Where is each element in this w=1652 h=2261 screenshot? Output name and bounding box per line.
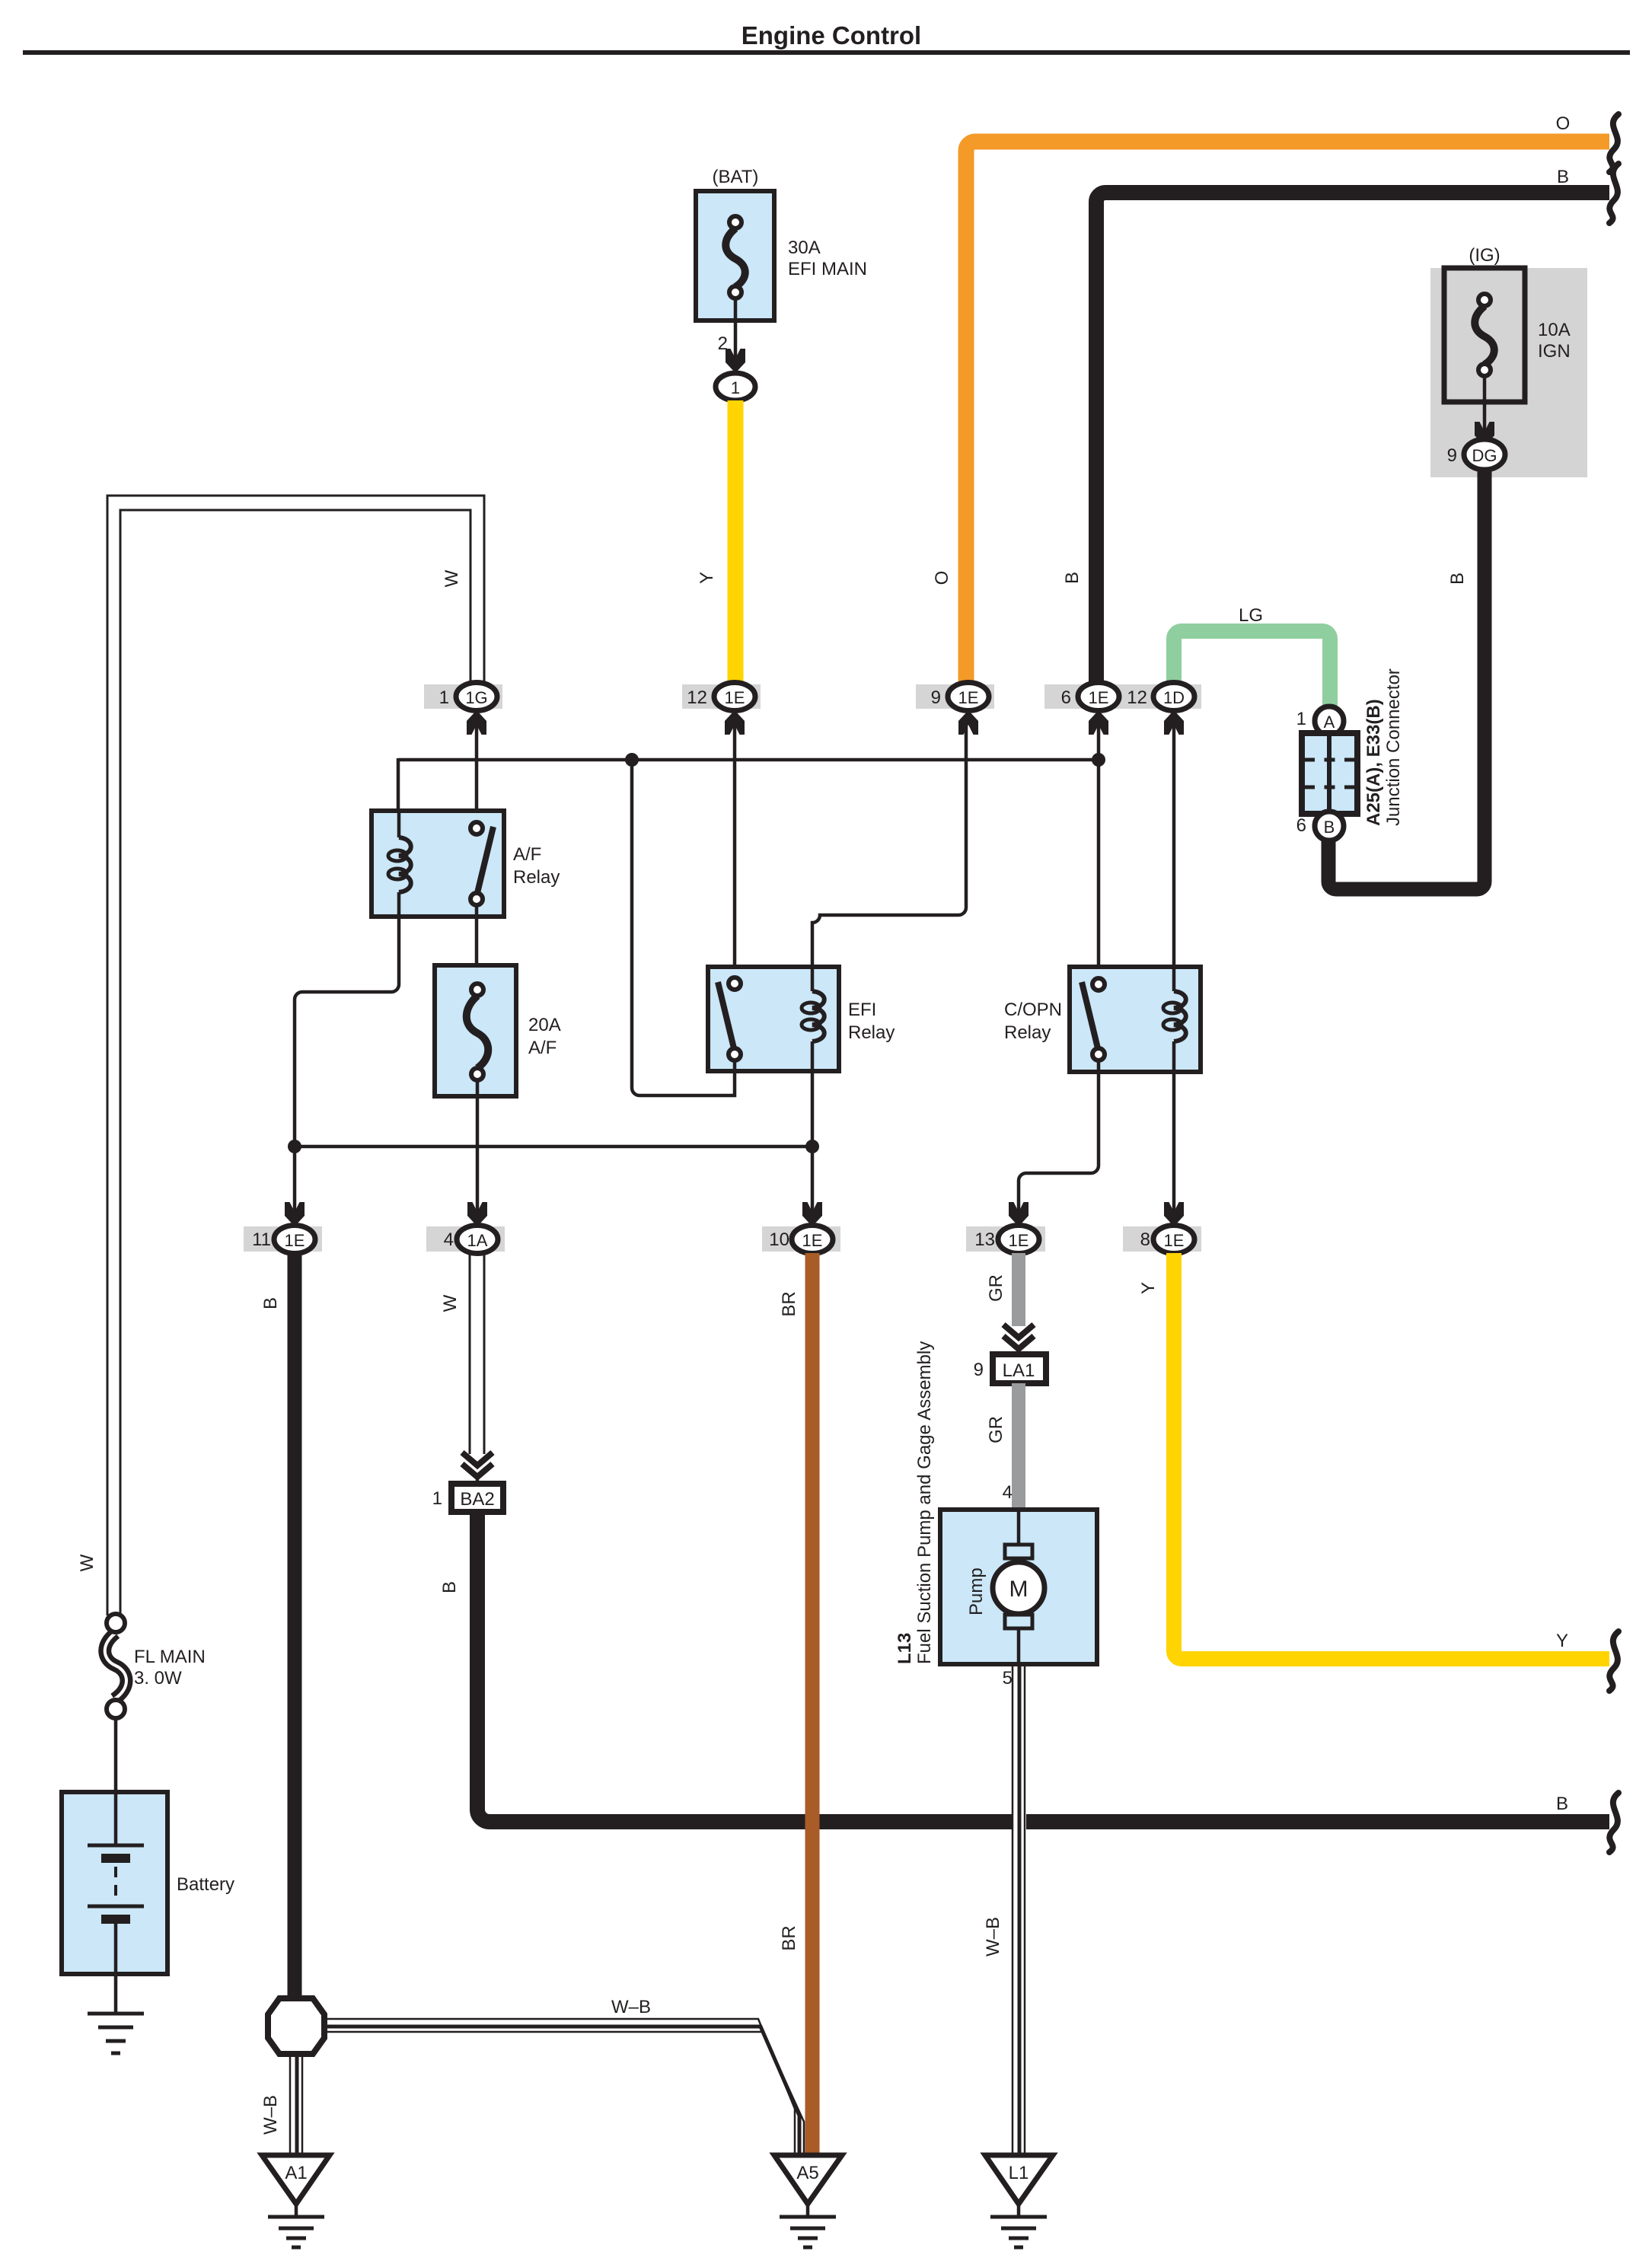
svg-text:L13: L13 bbox=[895, 1633, 915, 1664]
wire (12 1E to EFI relay switch) bbox=[733, 725, 737, 981]
wire BR (10 1E to ground A5) bbox=[805, 1253, 820, 2154]
svg-text:Fuel Suction Pump and Gage Ass: Fuel Suction Pump and Gage Assembly bbox=[914, 1341, 935, 1664]
relay C/OPN bbox=[1004, 967, 1201, 1072]
wire GR (LA1 to pump pin 4) bbox=[1012, 1383, 1025, 1510]
svg-text:1: 1 bbox=[439, 687, 449, 708]
wire (coil common, y=1506) bbox=[295, 1145, 812, 1149]
connector 1G pin 1 bbox=[424, 683, 502, 735]
wire W-B (octagon to ground A1) bbox=[260, 2054, 302, 2155]
svg-text:9: 9 bbox=[974, 1360, 984, 1380]
svg-text:6: 6 bbox=[1296, 815, 1306, 836]
fusible link FL MAIN 3.0W bbox=[105, 1614, 206, 1718]
connector 1E pin 9 bbox=[916, 683, 994, 735]
svg-text:O: O bbox=[1556, 113, 1571, 134]
relay A/F bbox=[372, 811, 560, 917]
svg-text:Relay: Relay bbox=[1004, 1022, 1051, 1043]
svg-text:B: B bbox=[1557, 167, 1569, 187]
wire (EFI switch bottom leg) bbox=[733, 1060, 737, 1073]
junction connector A25(A), E33(B) bbox=[1296, 668, 1404, 840]
svg-text:BA2: BA2 bbox=[460, 1489, 494, 1510]
svg-text:11: 11 bbox=[252, 1229, 271, 1250]
svg-text:1E: 1E bbox=[1009, 1231, 1029, 1250]
wire (FL MAIN to battery) bbox=[114, 1718, 118, 1795]
svg-text:GR: GR bbox=[986, 1416, 1006, 1443]
svg-text:A25(A), E33(B): A25(A), E33(B) bbox=[1363, 699, 1384, 826]
wire Y (8 1E to right edge) bbox=[1174, 1253, 1609, 1659]
ground (battery) bbox=[88, 2014, 144, 2053]
relay EFI bbox=[708, 967, 895, 1071]
svg-text:5: 5 bbox=[1003, 1668, 1013, 1689]
node (bus meets 6 1E wire) bbox=[1092, 753, 1105, 767]
node (11 1E branch) bbox=[288, 1140, 301, 1153]
connector 1E pin 8 bbox=[1123, 1202, 1201, 1254]
wire (A/F switch to 20A fuse) bbox=[475, 905, 479, 967]
svg-text:1: 1 bbox=[1296, 709, 1306, 729]
svg-text:W–B: W–B bbox=[260, 2095, 281, 2135]
svg-text:3. 0W: 3. 0W bbox=[134, 1668, 182, 1689]
wire (EFI coil to 10 1E) bbox=[811, 1071, 815, 1213]
svg-text:A/F: A/F bbox=[528, 1038, 557, 1058]
wire Y (fuse 30A to 12 1E) bbox=[728, 400, 744, 683]
bus wire (relay feed, y=998) bbox=[398, 758, 1099, 762]
wire B (11 1E to splice octagon) bbox=[288, 1253, 302, 1999]
svg-text:DG: DG bbox=[1472, 446, 1497, 465]
svg-text:O: O bbox=[932, 571, 952, 585]
svg-text:Relay: Relay bbox=[848, 1022, 895, 1043]
svg-text:L1: L1 bbox=[1009, 2163, 1029, 2183]
svg-text:20A: 20A bbox=[528, 1015, 561, 1035]
wire B (black, 6 1E to right edge) bbox=[1096, 193, 1609, 683]
svg-text:LA1: LA1 bbox=[1003, 1360, 1035, 1381]
svg-text:Pump: Pump bbox=[966, 1567, 987, 1615]
connector 1E pin 11 bbox=[244, 1202, 322, 1254]
svg-text:1E: 1E bbox=[725, 688, 745, 707]
svg-text:1E: 1E bbox=[1089, 688, 1109, 707]
svg-text:EFI: EFI bbox=[848, 1000, 876, 1020]
svg-text:B: B bbox=[439, 1581, 460, 1593]
svg-text:W: W bbox=[77, 1554, 97, 1571]
svg-text:FL MAIN: FL MAIN bbox=[134, 1647, 206, 1667]
svg-text:4: 4 bbox=[444, 1229, 454, 1250]
svg-text:W: W bbox=[442, 569, 462, 587]
battery bbox=[62, 1792, 234, 2012]
break symbol (Y wire bottom) bbox=[1609, 1631, 1619, 1691]
splice octagon bbox=[268, 1998, 324, 2054]
svg-text:1E: 1E bbox=[802, 1231, 823, 1250]
wire (20A fuse to 4 1A) bbox=[476, 1080, 480, 1213]
svg-text:C/OPN: C/OPN bbox=[1004, 1000, 1062, 1020]
wire (12 1D to C/OPN relay coil) bbox=[1172, 725, 1176, 978]
svg-text:1A: 1A bbox=[467, 1231, 488, 1250]
wire (6 1E to C/OPN relay switch) bbox=[1097, 725, 1101, 981]
wire (C/OPN switch to 13 1E) bbox=[1019, 1060, 1099, 1213]
wire B (BA2 to right edge) bbox=[477, 1512, 1609, 1822]
svg-text:W–B: W–B bbox=[983, 1917, 1003, 1956]
fuse 10A IGN (IG) bbox=[1430, 245, 1587, 477]
wire (C/OPN coil to 8 1E) bbox=[1172, 1072, 1176, 1213]
connector 1A pin 4 bbox=[426, 1202, 505, 1254]
wire (9 1E to EFI relay coil) bbox=[812, 725, 966, 968]
svg-text:10: 10 bbox=[769, 1229, 789, 1250]
break symbol (B wire top) bbox=[1609, 164, 1619, 223]
wire O (orange, 9 1E to right edge) bbox=[966, 142, 1609, 683]
svg-text:Y: Y bbox=[697, 572, 717, 584]
wire W-B (octagon to ground A5) bbox=[324, 1997, 804, 2155]
svg-text:12: 12 bbox=[1127, 687, 1147, 708]
wire B (DG to junction connector B) bbox=[1328, 470, 1485, 889]
svg-text:W–B: W–B bbox=[611, 1997, 651, 2017]
node (bus to EFI switch branch) bbox=[625, 753, 639, 767]
svg-text:BR: BR bbox=[779, 1925, 799, 1950]
title rule bbox=[23, 50, 1630, 55]
svg-text:Battery: Battery bbox=[177, 1874, 234, 1895]
fuel suction pump and gage assembly L13 bbox=[895, 1341, 1097, 1689]
svg-text:B: B bbox=[1062, 572, 1083, 584]
svg-text:B: B bbox=[1447, 572, 1468, 585]
break symbol (B wire bottom) bbox=[1609, 1793, 1619, 1852]
connector LA1 pin 9 (double chevron) bbox=[974, 1325, 1046, 1383]
svg-text:6: 6 bbox=[1061, 687, 1071, 708]
svg-text:EFI MAIN: EFI MAIN bbox=[788, 259, 867, 279]
svg-text:Relay: Relay bbox=[513, 867, 560, 888]
svg-text:Junction Connector: Junction Connector bbox=[1383, 668, 1404, 826]
svg-text:1: 1 bbox=[731, 378, 740, 397]
fuse 20A A/F bbox=[435, 965, 561, 1096]
svg-text:(BAT): (BAT) bbox=[713, 167, 759, 187]
svg-text:(IG): (IG) bbox=[1469, 245, 1500, 266]
svg-text:1: 1 bbox=[432, 1488, 442, 1509]
break symbol (O wire) bbox=[1609, 114, 1619, 172]
svg-text:1E: 1E bbox=[1164, 1231, 1185, 1250]
node (10 1E branch) bbox=[805, 1140, 819, 1153]
wire GR (13 1E to LA1) bbox=[1012, 1253, 1025, 1326]
wire (1G to A/F relay switch) bbox=[475, 725, 479, 826]
wire W-B (pump pin 5 to ground L1) bbox=[983, 1664, 1026, 2155]
svg-text:W: W bbox=[440, 1294, 461, 1312]
svg-text:A5: A5 bbox=[796, 2163, 818, 2183]
svg-text:B: B bbox=[1556, 1794, 1568, 1814]
connector 1E pin 6 / 1D pin 12 bbox=[1044, 683, 1201, 735]
connector BA2 pin 1 (double chevron) bbox=[432, 1453, 503, 1512]
svg-text:A: A bbox=[1324, 713, 1335, 732]
svg-text:Y: Y bbox=[1138, 1282, 1159, 1294]
svg-text:LG: LG bbox=[1239, 605, 1263, 626]
svg-text:BR: BR bbox=[779, 1291, 799, 1316]
svg-text:A/F: A/F bbox=[513, 844, 541, 865]
svg-text:9: 9 bbox=[1447, 445, 1457, 466]
svg-text:A1: A1 bbox=[285, 2163, 307, 2183]
connector 1E pin 13 bbox=[966, 1202, 1045, 1254]
wire W (battery to 1G, double line loop) bbox=[107, 496, 484, 1615]
svg-text:Engine Control: Engine Control bbox=[741, 21, 921, 49]
svg-text:1E: 1E bbox=[958, 688, 979, 707]
svg-text:1G: 1G bbox=[465, 688, 487, 707]
wire (bus node to EFI relay switch bottom) bbox=[632, 760, 735, 1095]
svg-text:B: B bbox=[260, 1297, 281, 1309]
svg-text:IGN: IGN bbox=[1538, 341, 1571, 362]
svg-text:GR: GR bbox=[986, 1274, 1006, 1302]
wire (A/F coil to 11 1E) bbox=[295, 917, 399, 1213]
svg-text:10A: 10A bbox=[1538, 320, 1571, 340]
svg-text:M: M bbox=[1009, 1577, 1029, 1602]
svg-text:12: 12 bbox=[687, 687, 707, 708]
svg-text:13: 13 bbox=[974, 1229, 995, 1250]
svg-text:1E: 1E bbox=[285, 1231, 305, 1250]
ground A5 bbox=[774, 2155, 842, 2247]
fuse 30A EFI MAIN (BAT) bbox=[696, 167, 867, 400]
ground L1 bbox=[985, 2155, 1053, 2247]
svg-text:1D: 1D bbox=[1163, 688, 1185, 707]
wire LG (12 1D to junction connector A) bbox=[1174, 631, 1330, 708]
svg-text:8: 8 bbox=[1140, 1229, 1150, 1250]
connector 1E pin 10 bbox=[762, 1202, 840, 1254]
svg-text:B: B bbox=[1324, 818, 1335, 837]
ground A1 bbox=[262, 2155, 330, 2247]
connector 1E pin 12 bbox=[682, 683, 761, 735]
svg-text:4: 4 bbox=[1003, 1482, 1013, 1503]
svg-text:30A: 30A bbox=[788, 238, 821, 258]
svg-text:9: 9 bbox=[931, 687, 941, 708]
svg-text:Y: Y bbox=[1556, 1631, 1568, 1651]
wire W (4 1A to BA2, double line) bbox=[469, 1253, 471, 1454]
